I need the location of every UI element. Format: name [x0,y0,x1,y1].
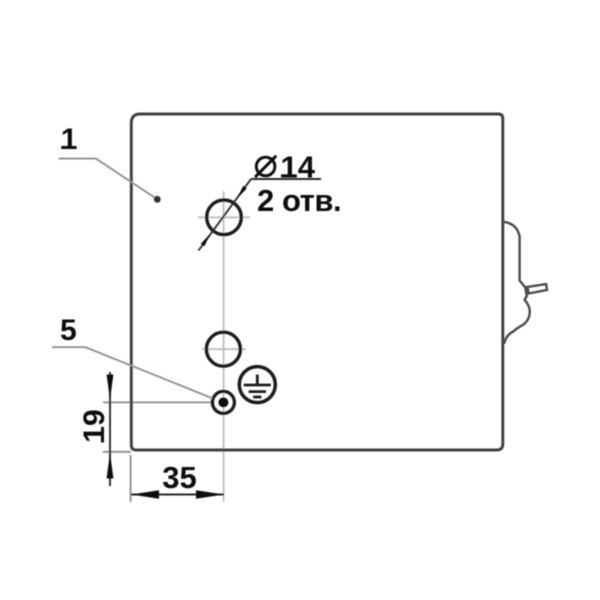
node dim 35 arrow left [131,490,159,498]
wire diameter leader diagonal [199,179,252,251]
node lever stub [527,284,547,293]
node hole 5 center dot [218,397,228,407]
node hole middle [206,332,240,366]
svg-text:2 отв.: 2 отв. [257,183,341,218]
node serif of digit 1 in 14 [281,174,293,177]
wire extension line box bottom [103,451,131,453]
wire crosshair middle hole [202,348,246,350]
node hole 5 small [212,391,234,413]
node serif of digit 1 in 19 [101,431,104,443]
wire dim 19 line [109,372,111,486]
node dim 19 arrow down [107,375,114,401]
svg-text:19: 19 [78,409,111,442]
svg-text:35: 35 [162,460,196,495]
node arrowhead upper on circle [237,186,247,199]
node dim 35 arrow right [196,490,224,498]
node ground terminal circle [239,367,275,403]
node ground symbol [244,375,271,397]
node side protrusion thermostat [503,222,530,344]
wire leader label 5 [52,347,212,398]
node leader dot 1 [154,196,161,203]
wire crosshair hole D14 [198,216,250,218]
wire diameter leader shelf [251,178,321,180]
wire leader label 1 [59,159,158,200]
svg-text:14: 14 [281,149,316,184]
node dim 19 arrow up [107,453,114,479]
node arrowhead lower on circle [201,233,211,246]
node diameter symbol [255,156,276,177]
node serif of label 1 [61,146,75,149]
svg-text:5: 5 [60,314,77,347]
wire extension line hole 5 center [103,401,212,403]
wire centerline vertical through holes [223,191,225,502]
svg-text:1: 1 [61,123,78,156]
wire dim 35 line [131,494,224,496]
wire dim 35 left extension [130,455,132,502]
node enclosure body outline [131,114,503,450]
node hole D14 top [207,200,242,235]
